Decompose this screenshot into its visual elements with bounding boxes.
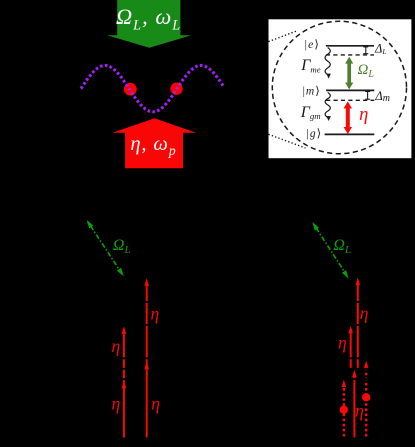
- svg-text:η: η: [360, 303, 369, 323]
- svg-text:η: η: [112, 336, 121, 356]
- svg-text:η: η: [359, 105, 368, 125]
- svg-text:η: η: [151, 303, 160, 323]
- svg-text:|e⟩: |e⟩: [305, 38, 321, 51]
- svg-text:η: η: [112, 394, 121, 414]
- svg-text:|g⟩: |g⟩: [307, 127, 323, 140]
- svg-text:η: η: [338, 332, 347, 352]
- svg-text:η: η: [151, 394, 160, 414]
- svg-text:η: η: [355, 400, 364, 420]
- svg-text:|m⟩: |m⟩: [303, 84, 321, 97]
